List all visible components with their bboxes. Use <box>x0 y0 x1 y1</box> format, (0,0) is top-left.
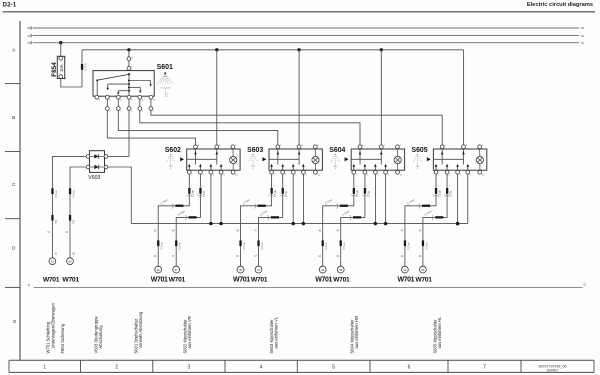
node feed junction <box>215 48 218 51</box>
S604 bottom pins <box>352 170 356 174</box>
svg-text:47: 47 <box>257 268 261 272</box>
wire S605 pin4 to ground bus <box>467 174 469 223</box>
S601 pin <box>149 95 153 99</box>
wire S605 pin2 to W701 <box>423 174 447 266</box>
svg-text:W701: W701 <box>151 276 168 283</box>
S602 position fan <box>166 154 175 170</box>
svg-text:0.75 rt: 0.75 rt <box>85 63 88 70</box>
svg-text:30: 30 <box>27 34 31 38</box>
S601 top pin <box>127 67 131 71</box>
wire S605 pin7 to W701 <box>405 174 436 266</box>
ground connector W701 <box>255 266 262 273</box>
svg-text:1.5 bl: 1.5 bl <box>203 190 206 197</box>
bus line 15 <box>33 42 580 44</box>
connector pin <box>127 107 131 111</box>
row tick C/D <box>5 218 20 220</box>
row D/E separator tick <box>5 286 20 288</box>
wire S603 pin2 to W701 <box>259 174 283 266</box>
svg-text:S603 Kippschalteraus einfahren: S603 Kippschalteraus einfahren VL <box>269 316 279 353</box>
S605 actuator <box>427 157 431 161</box>
svg-text:0.5 sw: 0.5 sw <box>343 242 346 249</box>
fuse F854 <box>59 56 63 60</box>
wire V603 to ground W701 right <box>70 167 86 258</box>
wire S601 to lamp switch <box>140 110 360 144</box>
wire S604 pin7 to W701 <box>323 174 354 266</box>
wire bus15 to F854 <box>60 43 62 57</box>
svg-text:1.5 gn: 1.5 gn <box>438 189 441 197</box>
svg-text:46: 46 <box>157 268 161 272</box>
S604 position fan <box>331 154 340 170</box>
S603 bottom pins <box>270 170 274 174</box>
svg-text:61: 61 <box>51 259 55 263</box>
svg-text:D2-1: D2-1 <box>3 1 17 8</box>
wire marker <box>69 215 71 221</box>
connector pin <box>105 107 109 111</box>
svg-text:6/0407: 6/0407 <box>547 369 558 373</box>
ground connector W701 <box>337 266 344 273</box>
wire marker <box>322 240 324 246</box>
S604 internal contacts <box>359 149 361 165</box>
lamp S603 <box>312 156 319 163</box>
wire S602 pin4 to ground bus <box>210 174 212 223</box>
ground connector W701 <box>155 266 162 273</box>
frame left border <box>19 21 21 360</box>
wire marker <box>271 188 273 194</box>
wire marker <box>353 216 361 218</box>
wire feed to S605 pin3 <box>463 50 465 145</box>
svg-text:S604 Kippschalteraus einfahren: S604 Kippschalteraus einfahren HR <box>349 316 359 354</box>
wire marker <box>188 188 190 194</box>
wire S604 pin4 to ground bus <box>374 174 376 223</box>
svg-text:1.5 bl: 1.5 bl <box>285 190 288 197</box>
wire F854 to feed line <box>61 50 82 87</box>
svg-text:W701: W701 <box>315 276 332 283</box>
svg-text:W701: W701 <box>397 276 414 283</box>
S601 connector stub <box>150 99 152 106</box>
ground connector W701 <box>237 266 244 273</box>
wire marker <box>69 188 71 194</box>
svg-text:0.5 sw: 0.5 sw <box>425 242 428 249</box>
S601 contact bar pos3 <box>129 86 140 88</box>
wire S602 pin7 to W701 <box>158 174 189 266</box>
wire marker <box>282 188 284 194</box>
S602 actuator <box>180 157 184 161</box>
svg-text:750: 750 <box>55 219 58 224</box>
S601 pin <box>95 95 99 99</box>
S602 top pins <box>194 145 198 149</box>
bus line 30 <box>33 35 580 37</box>
svg-text:45: 45 <box>339 268 343 272</box>
svg-text:0 1 2 3 4 5: 0 1 2 3 4 5 <box>161 87 171 89</box>
wire marker <box>422 205 430 207</box>
wire feed to S601 <box>128 50 130 57</box>
S601 contact bar pos4 <box>118 90 129 92</box>
svg-text:S602: S602 <box>165 147 181 154</box>
svg-text:W701: W701 <box>233 276 250 283</box>
wire marker <box>353 188 355 194</box>
svg-text:1: 1 <box>43 365 46 371</box>
wire V603 top right <box>108 155 129 157</box>
svg-text:W701: W701 <box>415 276 432 283</box>
bottom reference grid <box>9 359 594 361</box>
svg-text:15: 15 <box>27 41 31 45</box>
wire V603 bottom right to ground bus <box>108 167 131 224</box>
svg-text:58: 58 <box>27 26 31 30</box>
wire S604 pin8 to ground bus <box>385 174 387 223</box>
svg-text:W701: W701 <box>251 276 268 283</box>
svg-text:2: 2 <box>115 365 118 371</box>
svg-text:S605: S605 <box>412 147 428 154</box>
svg-text:1.5 gn: 1.5 gn <box>356 189 359 197</box>
ground connector W701 <box>319 266 326 273</box>
wire S604 pin2 to W701 <box>341 174 365 266</box>
ground connector W701 <box>67 258 74 265</box>
svg-text:47: 47 <box>175 268 179 272</box>
svg-text:S601: S601 <box>157 64 173 71</box>
svg-text:0.5 sw: 0.5 sw <box>55 190 58 197</box>
svg-text:60: 60 <box>68 259 72 263</box>
wire marker <box>435 188 437 194</box>
S601 contact bar pos2 <box>108 83 129 85</box>
ground connector W701 <box>420 266 427 273</box>
lamp S605 <box>476 156 483 163</box>
ground connector W701 <box>402 266 409 273</box>
wire marker <box>199 188 201 194</box>
wire marker <box>51 215 53 221</box>
wire marker <box>435 216 443 218</box>
svg-text:W701: W701 <box>169 276 186 283</box>
wire marker <box>258 205 266 207</box>
wire marker <box>239 240 241 246</box>
wire marker <box>257 240 259 246</box>
wire marker on feed riser <box>81 64 83 70</box>
wire marker <box>422 240 424 246</box>
S603 position fan <box>249 154 258 170</box>
wire feed to S604 pin3 <box>380 50 382 145</box>
wire S601 to V603 <box>128 110 130 156</box>
S603 internal contacts <box>277 149 279 165</box>
switch S604 body <box>351 149 404 170</box>
svg-text:S602 Kippschalteraus einfahren: S602 Kippschalteraus einfahren VR <box>183 316 193 353</box>
switch S603 body <box>269 149 322 170</box>
wire marker <box>340 240 342 246</box>
connector pin <box>149 107 153 111</box>
svg-text:Electric circuit diagrams: Electric circuit diagrams <box>527 2 593 8</box>
svg-text:30: 30 <box>581 34 585 38</box>
S601 pin <box>127 95 131 99</box>
svg-text:W701: W701 <box>43 276 60 283</box>
svg-text:0.5 sw: 0.5 sw <box>325 242 328 249</box>
wire marker <box>175 240 177 246</box>
svg-text:0.5 sw: 0.5 sw <box>73 190 76 197</box>
wire marker <box>189 216 197 218</box>
svg-text:1.5 bl: 1.5 bl <box>450 190 453 197</box>
S604 actuator <box>345 157 349 161</box>
wire marker <box>340 205 348 207</box>
svg-text:V603: V603 <box>88 175 100 181</box>
wire 61 separator line <box>34 286 583 288</box>
row tick B/C <box>5 151 20 153</box>
wire S605 pin4 to ground bus <box>457 174 459 223</box>
header rule <box>3 11 596 13</box>
svg-text:6: 6 <box>408 365 411 371</box>
S605 bottom pins <box>434 170 438 174</box>
svg-text:43: 43 <box>421 268 425 272</box>
svg-text:46: 46 <box>239 268 243 272</box>
svg-text:750: 750 <box>73 219 76 224</box>
svg-text:0.5 sw: 0.5 sw <box>407 242 410 249</box>
node feed junction <box>297 48 300 51</box>
diode group V603 <box>90 151 105 173</box>
wire marker <box>175 205 183 207</box>
S601 pin <box>116 95 120 99</box>
S601 contact bar pos1 <box>129 80 151 82</box>
wire marker <box>157 240 159 246</box>
svg-text:0.5 sw: 0.5 sw <box>179 242 182 249</box>
S605 internal contacts <box>441 149 443 165</box>
S601 position fan <box>164 72 166 74</box>
svg-text:4: 4 <box>260 365 263 371</box>
svg-text:44: 44 <box>321 268 325 272</box>
wire feed to S603 pin3 <box>298 50 300 145</box>
wire S602 pin2 to W701 <box>176 174 200 266</box>
S601 connector stub <box>139 99 141 106</box>
S601 pin <box>105 95 109 99</box>
wire S602 pin8 to ground bus <box>220 174 222 223</box>
lamp S602 <box>230 156 237 163</box>
wire S601 to lamp switch <box>118 110 277 144</box>
wire feed to S602 pin3 <box>216 50 218 145</box>
wire V603 to ground W701 left <box>52 156 86 258</box>
node junction bus15/F854 <box>59 41 62 44</box>
svg-text:1.5 gn: 1.5 gn <box>192 189 195 197</box>
ground connector W701 <box>173 266 180 273</box>
svg-text:0.5 sw: 0.5 sw <box>243 242 246 249</box>
svg-text:1.5 gn: 1.5 gn <box>274 189 277 197</box>
S603 top pins <box>276 145 280 149</box>
feed line from F854 <box>82 49 464 51</box>
svg-text:F854 Sicherung: F854 Sicherung <box>60 323 65 353</box>
bus line 58 <box>33 27 580 29</box>
connector pin <box>116 107 120 111</box>
svg-text:10A: 10A <box>59 64 64 72</box>
connector pin above S601 <box>127 57 131 61</box>
svg-text:58: 58 <box>581 26 585 30</box>
svg-text:3: 3 <box>188 365 191 371</box>
wire marker <box>446 188 448 194</box>
switch S602 body <box>187 149 240 170</box>
S605 top pins <box>440 145 444 149</box>
diode 1 <box>90 155 95 157</box>
S605 position fan <box>413 154 422 170</box>
svg-text:0.5 sw: 0.5 sw <box>161 242 164 249</box>
node feed junction <box>380 48 383 51</box>
S601 wiper arm <box>128 73 130 75</box>
S601 common rail <box>128 74 130 95</box>
S601 connector stub <box>128 99 130 106</box>
switch S605 body <box>433 149 486 170</box>
svg-text:42: 42 <box>403 268 407 272</box>
svg-text:S603: S603 <box>247 147 263 154</box>
svg-text:W701: W701 <box>333 276 350 283</box>
S601 connector stub <box>106 99 108 106</box>
svg-text:W701: W701 <box>62 276 79 283</box>
ground connector W701 <box>49 258 56 265</box>
wire S601 to lamp switch <box>107 110 195 144</box>
node feed junction <box>127 48 130 51</box>
wire marker <box>404 240 406 246</box>
svg-text:F854: F854 <box>51 62 58 77</box>
svg-text:B: B <box>12 115 15 120</box>
svg-text:S605 Kippschalteraus einfahren: S605 Kippschalteraus einfahren HL <box>432 316 442 354</box>
wire marker <box>51 188 53 194</box>
S602 bottom pins <box>187 170 191 174</box>
connector pin <box>138 107 142 111</box>
diode 2 <box>90 166 95 168</box>
S603 actuator <box>262 157 266 161</box>
svg-text:S604: S604 <box>329 147 345 154</box>
svg-text:7: 7 <box>483 365 486 371</box>
wire marker <box>271 216 279 218</box>
svg-text:1177: 1177 <box>167 93 169 97</box>
S602 internal contacts <box>195 149 197 165</box>
svg-text:E: E <box>13 319 16 324</box>
wire S603 pin8 to ground bus <box>302 174 304 223</box>
wire S601 to lamp switch <box>151 110 442 144</box>
op switch S601 body <box>93 71 154 97</box>
wire marker <box>364 188 366 194</box>
svg-text:5: 5 <box>332 365 335 371</box>
S601 connector stub <box>117 99 119 106</box>
svg-text:0.5 sw: 0.5 sw <box>261 242 264 249</box>
S604 top pins <box>358 145 362 149</box>
S601 pin <box>138 95 142 99</box>
row tick A/B <box>5 83 20 85</box>
wire S603 pin7 to W701 <box>241 174 272 266</box>
lamp S604 <box>394 156 401 163</box>
svg-text:1.5 bl: 1.5 bl <box>367 190 370 197</box>
svg-text:15: 15 <box>581 41 585 45</box>
ground bus wire <box>131 223 468 225</box>
wire S603 pin4 to ground bus <box>292 174 294 223</box>
